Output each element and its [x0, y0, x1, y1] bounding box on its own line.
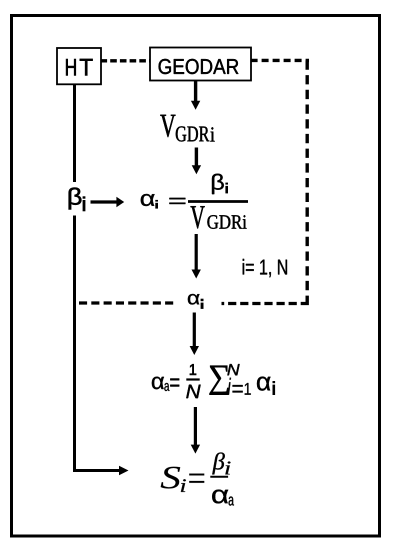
node alpha_i — [188, 294, 204, 309]
equation alpha_i = beta_i / V_GDRi — [141, 174, 248, 229]
wire solid alpha_i down, arrow into alpha_a equation — [193, 313, 196, 348]
wire dashed GEODAR to top-right corner — [251, 59, 309, 62]
wire solid from HT down to beta_i — [73, 84, 76, 182]
equation alpha_a = (1/N) sum alpha_i — [152, 364, 275, 398]
arrow GEODAR down to V_GDRi — [194, 81, 197, 102]
label i= 1, N — [243, 259, 287, 277]
wire dashed from right corner to alpha_i node — [222, 302, 309, 305]
arrow alpha_a down to S_i equation — [194, 407, 197, 446]
wire dashed right vertical — [306, 60, 309, 302]
arrow beta_i to equation — [91, 200, 118, 203]
arrowhead into S_i equation — [119, 466, 129, 475]
box HT — [57, 48, 101, 84]
equation S_i = beta_i / alpha_a — [161, 453, 234, 506]
wire dashed HT to GEODAR — [101, 59, 151, 62]
arrow V_GDRi down to equation — [195, 148, 198, 167]
arrow equation down to alpha_i node — [195, 234, 198, 271]
wire solid from beta_i down to elbow, then right — [73, 216, 119, 471]
label beta_i on HT wire — [69, 188, 86, 212]
wire dashed from HT line to alpha_i node — [79, 301, 177, 304]
label V_GDRi — [160, 115, 214, 142]
box GEODAR — [150, 48, 251, 81]
